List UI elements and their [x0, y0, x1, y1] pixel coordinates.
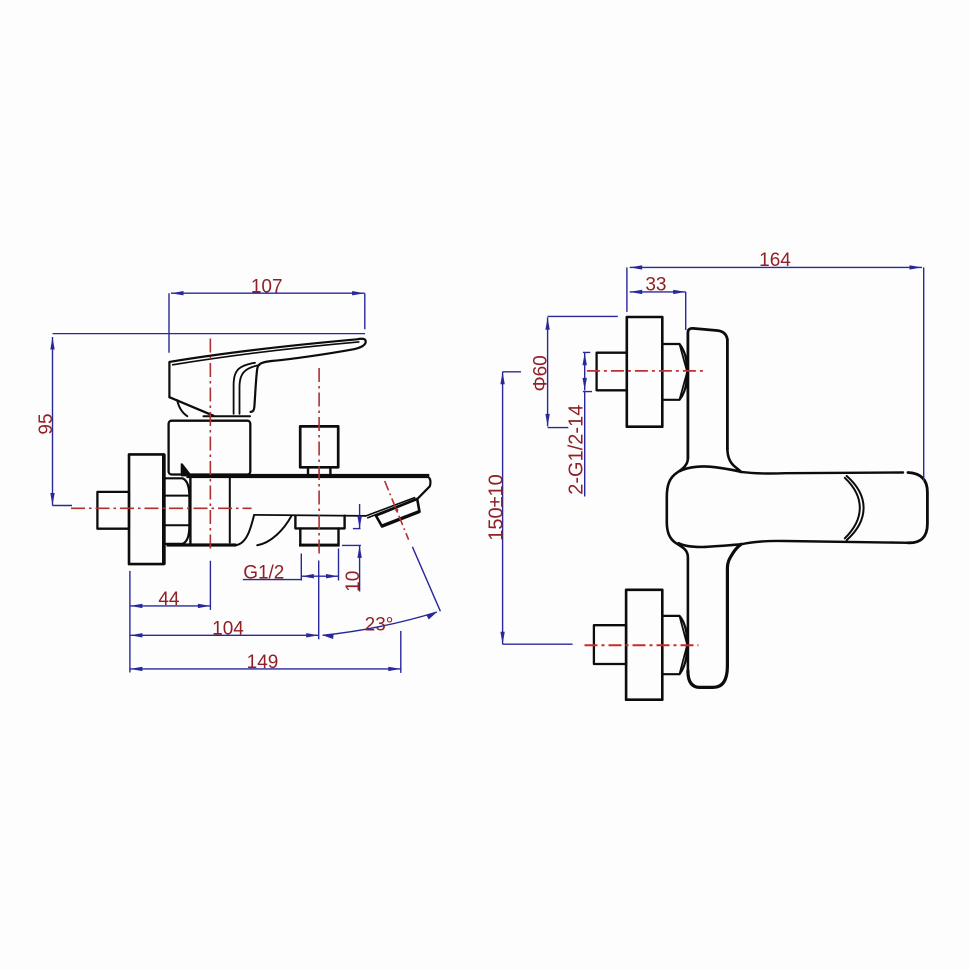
svg-text:44: 44: [158, 589, 180, 610]
dim 150 bottom ext: [503, 643, 573, 645]
dim 164 right ext line: [923, 267, 925, 481]
diverter knob: [300, 426, 338, 467]
dim 10 upper leader: [359, 504, 361, 529]
outlet nipple bottom thick bar: [299, 544, 340, 547]
aerator center dot: [395, 509, 398, 512]
svg-text:164: 164: [759, 250, 791, 271]
dimension texts, left view: [36, 276, 393, 673]
dim 10 upper tick: [353, 528, 361, 530]
dim phi60 bottom ext: [548, 427, 569, 429]
dim 95 line: [52, 337, 54, 506]
dim G1/2 underline: [243, 579, 301, 581]
dim 2-G1/2-14 underline: [584, 392, 586, 497]
diverter knob vertical centerline: [318, 368, 320, 556]
dim 44 line: [130, 605, 211, 607]
spout underside rise double line: [366, 498, 415, 518]
dim 23 arc: [323, 612, 438, 635]
dim 33 right ext line: [685, 292, 687, 330]
bottom hex nut: [662, 616, 687, 674]
inlet horizontal centerline: [71, 507, 252, 509]
body/spout top thick bar: [187, 474, 430, 478]
wall flange escutcheon (left view): [129, 454, 163, 564]
svg-text:Φ60: Φ60: [530, 355, 551, 391]
dim 107 line: [171, 292, 365, 294]
svg-text:33: 33: [645, 275, 666, 296]
dim 149 line: [130, 668, 401, 670]
spout underside line: [254, 515, 366, 516]
dim 149 right ext line: [400, 631, 402, 673]
collar under handle neck: [204, 415, 251, 417]
chin arc left of cap: [177, 400, 187, 416]
svg-text:107: 107: [251, 276, 283, 297]
svg-text:95: 95: [36, 413, 57, 434]
body tube upper: [688, 328, 728, 458]
bowl top edge: [680, 466, 742, 471]
arrows dim 150: [500, 372, 504, 385]
dimensions, right view: [503, 267, 924, 644]
handle neck curve 1: [234, 363, 255, 414]
dim 107 ext lines: [169, 293, 365, 353]
bottom port centerline: [585, 644, 699, 646]
arrows dim 149: [130, 667, 143, 671]
valve vertical centerline: [209, 339, 211, 553]
handle end cap double arc: [845, 476, 864, 540]
svg-text:150±10: 150±10: [485, 474, 507, 541]
bowl bottom edge: [679, 543, 742, 547]
dim G1/2 line: [301, 575, 338, 577]
svg-text:149: 149: [247, 652, 279, 673]
dim G1/2 ext lines: [301, 549, 338, 581]
dim 150 line: [502, 372, 504, 644]
arrows dim 10: [357, 516, 361, 529]
body inner vertical division: [229, 478, 231, 542]
arrows dim 164: [630, 265, 643, 269]
dimension texts, right view: [485, 250, 791, 541]
arrowheads, right view: [500, 265, 922, 644]
diverter outlet step: [295, 516, 344, 529]
cartridge cap (handle base): [169, 421, 251, 475]
arrows dim 23: [323, 634, 334, 639]
top shower-hose flange: [627, 317, 663, 427]
flange right edge thick: [162, 455, 166, 564]
arrows dim 44: [130, 604, 143, 608]
handle bottom edge: [741, 541, 909, 544]
handle neck curve 2: [240, 365, 260, 414]
aerator housing (tilted): [376, 499, 420, 526]
handle top edge: [741, 472, 903, 474]
dim 104 right ext line: [318, 561, 320, 640]
dimensions, left view: [53, 293, 441, 673]
arrows dim 95: [50, 337, 54, 350]
top inlet nipple: [597, 353, 627, 391]
handle right end: [908, 473, 927, 543]
dim 95 top ext line: [53, 333, 366, 335]
arrows dim G1/2: [301, 574, 314, 578]
spout axis centerline (23 deg): [385, 481, 409, 540]
svg-text:10: 10: [343, 571, 364, 592]
dim 23 leg line: [412, 547, 440, 612]
dim 95 bottom tick: [53, 505, 73, 507]
dim 33 line: [630, 291, 686, 293]
centerlines, left view: [71, 339, 409, 557]
dim 164/33 left ext line: [626, 267, 628, 312]
wall supply nipple (left view): [97, 492, 129, 529]
tube-handle bottom fillet and lower tube right edge: [688, 544, 741, 687]
bottom hex nut crease: [680, 616, 688, 674]
tube-handle top fillet: [727, 449, 741, 472]
arrows dim phi60: [545, 317, 549, 330]
dim phi60 top ext: [548, 315, 618, 317]
diverter knob stem: [308, 467, 330, 474]
arrows dim 107: [171, 291, 184, 295]
centerlines, right view: [585, 371, 706, 645]
dim 2-G1/2-14 ticks: [583, 352, 592, 391]
spout tip corner and end face: [418, 478, 431, 499]
body-spout fillet curve B: [257, 516, 291, 545]
arrows dim 33: [630, 290, 643, 294]
svg-text:23°: 23°: [365, 614, 394, 635]
small tab above body left: [182, 464, 191, 475]
hex nut facet lines: [163, 496, 189, 526]
dim 150 top ext: [503, 371, 521, 373]
body bottom thick bar: [167, 543, 237, 546]
handle lever blade outline: [169, 339, 365, 412]
bottom inlet nipple: [594, 625, 626, 664]
body bowl left silhouette: [667, 458, 688, 671]
dim 164 line: [630, 266, 922, 268]
dim 104 line: [130, 634, 319, 636]
svg-text:2-G1/2-14: 2-G1/2-14: [566, 405, 588, 495]
diverter outlet nipple G1/2: [300, 528, 338, 544]
valve body left face edge: [189, 476, 191, 545]
dim 10 lower ext: [342, 544, 361, 546]
top hex nut: [662, 344, 687, 400]
dim 44/104/149 left ext line: [129, 571, 131, 673]
arrows dim 2-G1/2-14: [583, 353, 587, 366]
hex connection nut (left view): [163, 478, 189, 544]
top port centerline: [587, 370, 706, 372]
svg-text:104: 104: [212, 618, 244, 639]
svg-text:G1/2: G1/2: [243, 562, 284, 583]
dim 44 right ext line: [209, 561, 211, 610]
handle blade inner top line: [173, 342, 359, 365]
aerator bottom thick edge: [382, 512, 419, 526]
handle chin line: [169, 397, 213, 416]
dim phi60 line: [547, 317, 549, 426]
body-spout fillet curve A: [236, 515, 254, 545]
top hex nut crease: [680, 344, 688, 400]
arrowheads, left view: [50, 291, 437, 671]
bottom flange: [626, 590, 662, 700]
arrows dim 104: [130, 633, 143, 637]
dim 10 lower leader: [359, 545, 361, 591]
dim 2-G1/2-14 line: [584, 353, 586, 391]
